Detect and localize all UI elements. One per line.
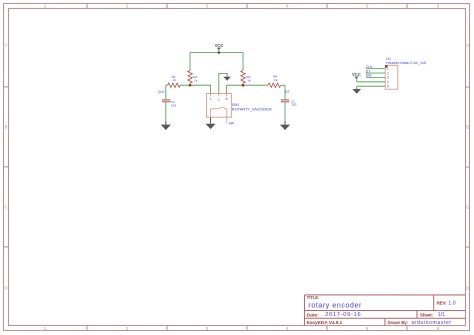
svg-text:4: 4	[387, 80, 389, 84]
svg-text:EasyEDA V4.9.1: EasyEDA V4.9.1	[307, 320, 343, 326]
svg-text:CLK: CLK	[158, 90, 165, 94]
svg-text:C: C	[218, 97, 220, 101]
svg-text:Header-Male-2.54_1x5: Header-Male-2.54_1x5	[386, 60, 426, 65]
svg-text:TITLE:: TITLE:	[307, 295, 320, 300]
svg-text:103: 103	[291, 103, 296, 107]
svg-text:VCC: VCC	[352, 72, 361, 77]
svg-text:REV:: REV:	[437, 300, 448, 305]
svg-text:B: B	[466, 124, 469, 129]
svg-text:A: A	[210, 97, 212, 101]
svg-text:B: B	[5, 124, 8, 129]
svg-text:Drawn By:: Drawn By:	[388, 320, 409, 325]
svg-text:C: C	[4, 204, 7, 209]
svg-text:1k: 1k	[247, 78, 251, 82]
svg-text:Date:: Date:	[307, 313, 319, 319]
svg-text:103: 103	[171, 103, 176, 107]
svg-text:C: C	[466, 204, 469, 209]
svg-text:1.0: 1.0	[448, 300, 455, 306]
svg-text:1k: 1k	[274, 78, 278, 82]
svg-text:arduinomaster: arduinomaster	[411, 320, 451, 326]
svg-text:SW: SW	[366, 74, 372, 78]
svg-text:5: 5	[387, 85, 389, 89]
svg-text:2017-09-16: 2017-09-16	[325, 312, 361, 318]
svg-text:VCC: VCC	[215, 43, 224, 48]
svg-text:3: 3	[387, 76, 389, 80]
svg-text:B: B	[226, 97, 228, 101]
svg-text:1k: 1k	[194, 78, 198, 82]
svg-text:SW: SW	[229, 122, 235, 126]
svg-text:1/1: 1/1	[438, 312, 445, 318]
svg-text:ROTARTY_ENCODER: ROTARTY_ENCODER	[232, 106, 272, 111]
svg-text:A: A	[466, 42, 469, 47]
svg-text:1k: 1k	[173, 78, 177, 82]
svg-text:A: A	[5, 42, 8, 47]
svg-text:1: 1	[387, 67, 389, 71]
svg-text:D: D	[4, 285, 7, 290]
svg-text:D: D	[466, 285, 469, 290]
svg-text:rotary encoder: rotary encoder	[308, 302, 362, 309]
svg-text:DT: DT	[285, 90, 289, 94]
svg-text:Sheet:: Sheet:	[420, 313, 434, 318]
